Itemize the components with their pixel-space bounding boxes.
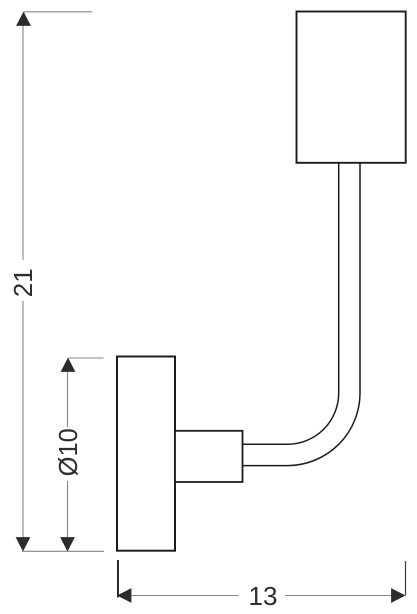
svg-text:21: 21 [8,268,38,297]
svg-text:13: 13 [249,581,278,611]
svg-text:Ø10: Ø10 [55,428,83,476]
